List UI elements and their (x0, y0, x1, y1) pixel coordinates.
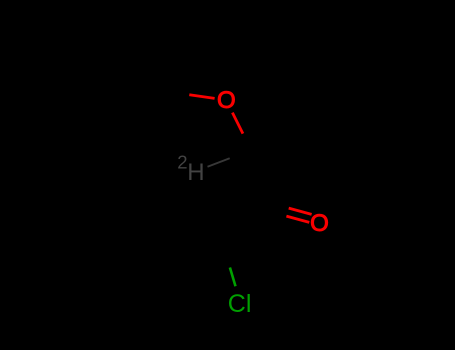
svg-text:O: O (310, 210, 329, 237)
svg-text:Cl: Cl (228, 290, 252, 318)
svg-text:H: H (187, 159, 204, 186)
wire C2=O double bond upper line (289, 208, 312, 214)
wire O-C3 bond (red half) (232, 113, 243, 134)
svg-text:2: 2 (177, 151, 187, 172)
svg-text:O: O (217, 87, 236, 114)
wire ethyl-O bond (red half) (189, 95, 214, 99)
wire C3-H bond (gray half) (208, 158, 230, 167)
wire C1-Cl bond (green half) (230, 268, 236, 287)
wire C2=O double bond lower line (286, 216, 309, 222)
